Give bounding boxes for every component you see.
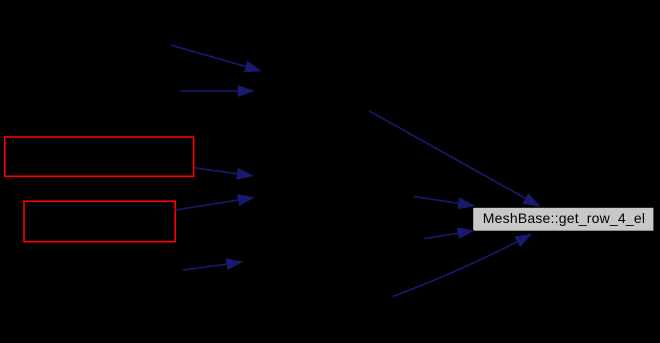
edge E8 bbox=[424, 228, 474, 239]
edge E4 bbox=[175, 195, 254, 211]
node box 1 (red, truncated caller) bbox=[5, 137, 194, 176]
edge E1 bbox=[172, 45, 262, 72]
svg-text:MeshBase::get_row_4_el: MeshBase::get_row_4_el bbox=[483, 210, 645, 226]
edge E5 bbox=[183, 259, 243, 270]
node MeshBase::get_row_4_el (current node, grey) bbox=[473, 208, 653, 231]
edge E3 bbox=[195, 168, 254, 180]
edge E2 bbox=[180, 85, 254, 96]
node box 2 (red, truncated caller) bbox=[24, 201, 175, 242]
edge E6 (long, into top of grey node) bbox=[369, 111, 540, 207]
edge E9 (curved, into bottom of grey node) bbox=[393, 234, 532, 297]
edge E7 bbox=[414, 196, 475, 209]
